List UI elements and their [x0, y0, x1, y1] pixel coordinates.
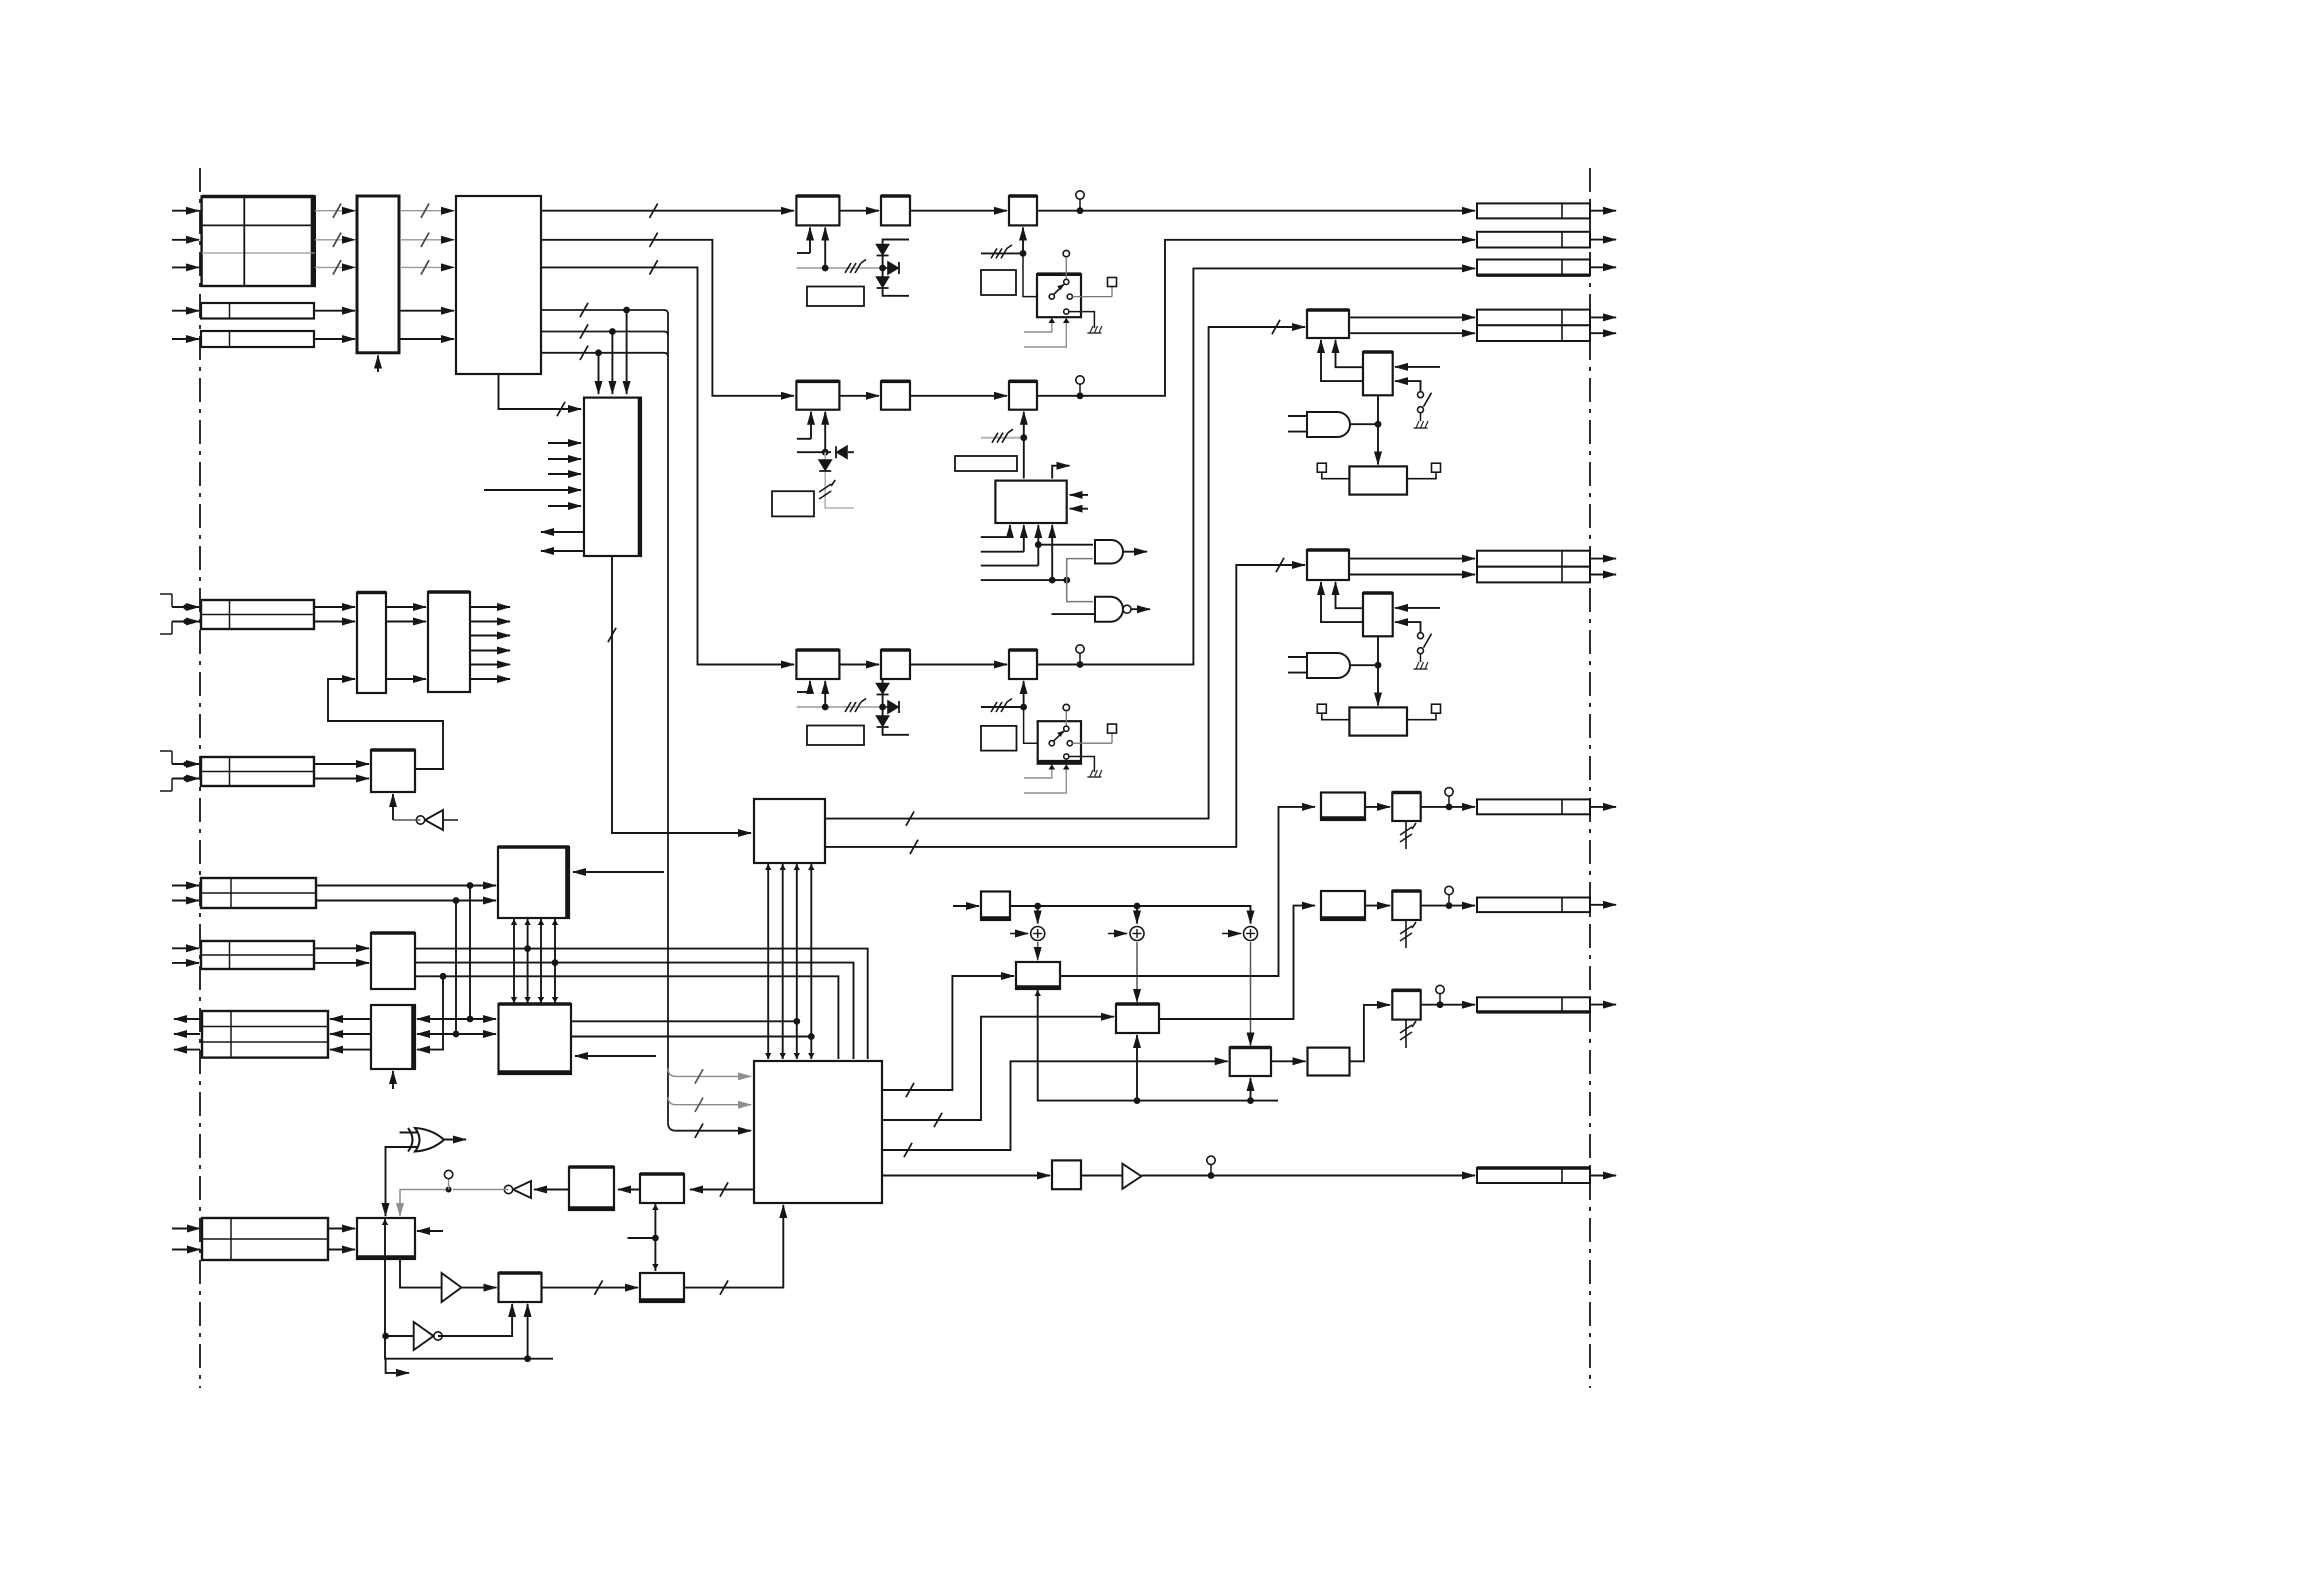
attenuator AT2	[1392, 891, 1420, 920]
node feedback	[446, 1187, 452, 1193]
wire M3 to M4	[1377, 636, 1379, 705]
wire J5.1-A3	[314, 763, 369, 765]
wire G8 to CN9	[1141, 1175, 1475, 1177]
AND gate G5	[1095, 540, 1123, 564]
wire U4-U6 data4	[810, 863, 812, 1059]
SW1 output to terminal	[1072, 296, 1112, 298]
input connector J1 (3-row table)	[202, 197, 315, 287]
line driver V2	[1307, 550, 1349, 580]
M1 input stub	[1395, 366, 1440, 368]
terminal CN8 monitor	[1436, 985, 1444, 993]
wire D2.out to F5	[1159, 906, 1315, 1019]
adjust line row3	[981, 706, 1024, 708]
wire U4.out1 to V1	[825, 327, 1305, 819]
wire D0 distribution	[1010, 906, 1251, 924]
wire D1.out to F4	[1060, 807, 1315, 976]
wire U4-U6 data1	[767, 863, 769, 1059]
wire J6.2-B1	[314, 962, 369, 964]
AND gate G14	[1307, 653, 1350, 678]
U3 input stub a	[548, 442, 581, 444]
wire tap to U3.in1	[626, 310, 628, 394]
mode box R5	[981, 726, 1017, 751]
deglitch box B3	[1052, 1160, 1081, 1189]
wire U6.out3 to D3	[882, 1061, 1228, 1150]
terminal CN6 monitor	[1445, 788, 1453, 796]
CN9 exit arrow	[1590, 1175, 1616, 1177]
wire V1 to CN4a	[1349, 316, 1475, 318]
buffer block U1	[357, 196, 399, 353]
node U2.out4 tap	[623, 307, 630, 314]
node G12 input tap	[382, 1333, 389, 1340]
wire J8 tap down to B2.in2	[455, 901, 457, 1035]
stereo decoder U5	[995, 481, 1066, 523]
node B1.out2 / DRAM	[552, 959, 559, 966]
J7 out stub1	[174, 1018, 200, 1020]
wire U4.out2 to V2	[825, 565, 1305, 847]
wire J3 to U1	[314, 338, 355, 340]
U5 status line a	[981, 525, 1010, 537]
wire G10 out (gray)	[453, 1189, 509, 1191]
wire B1 wrap to B2.in3	[417, 976, 443, 1049]
node U2.out5 tap	[609, 328, 616, 335]
DL1 bottom stub hook	[809, 228, 811, 254]
diode D4	[837, 446, 847, 458]
wire J4.2-A1	[314, 621, 355, 623]
buffer G11	[442, 1273, 462, 1302]
A2 output stub 1	[470, 606, 510, 608]
diode D6	[877, 684, 889, 694]
node clamp2	[822, 449, 829, 456]
NAND gate G6	[1095, 597, 1123, 622]
wire B2.in2 fanout	[417, 1033, 456, 1035]
attenuator AT3	[1392, 990, 1420, 1019]
A2 output stub 4	[470, 650, 510, 652]
wire dist2 to SUM2	[1136, 906, 1138, 924]
node rail to E3 return	[524, 1355, 531, 1362]
wire U6.out4 to B3	[882, 1175, 1050, 1177]
decoder A3	[371, 750, 415, 792]
input connector J9 (pair)	[202, 1218, 328, 1260]
B2 strobe feed	[392, 1071, 394, 1089]
terminal row3 monitor	[1076, 645, 1084, 653]
delay line DL2	[796, 381, 839, 409]
diode D5	[819, 460, 831, 470]
mode box R3	[772, 491, 814, 516]
level box R3b	[955, 456, 1017, 471]
CN8 exit arrow	[1590, 1004, 1616, 1006]
adjust line row1	[981, 252, 1023, 254]
sync separator E1	[357, 1218, 415, 1259]
terminal feedback	[444, 1170, 452, 1178]
output connector CN8	[1477, 997, 1590, 1012]
CN2 exit arrow	[1590, 239, 1616, 241]
filter F2	[881, 381, 910, 409]
SW1 bottom contact	[1064, 309, 1069, 314]
node rail-D4	[1247, 1097, 1254, 1104]
wire U3 to MPX U4	[612, 556, 751, 833]
wire V2 to CN5b	[1349, 574, 1475, 576]
diode D7	[877, 716, 889, 726]
ground SW1	[1087, 332, 1101, 334]
SW1 ground leg	[1069, 312, 1095, 328]
wire G1 to CN1	[1037, 210, 1475, 212]
G6 output stub	[1131, 608, 1150, 610]
U1 bottom control stub	[377, 356, 379, 373]
node clamp3	[822, 704, 829, 711]
DL2 bottom stub hook	[810, 412, 812, 439]
terminal CN7 monitor	[1445, 886, 1453, 894]
attenuator AT1	[1392, 793, 1420, 822]
interpolator D1	[1016, 962, 1060, 989]
inverter G12	[414, 1322, 434, 1350]
J4 stub row2	[172, 621, 199, 623]
node status d2	[1063, 577, 1070, 584]
wire M4 left terminal	[1322, 713, 1350, 720]
output connector CN3	[1477, 260, 1590, 276]
output connector J7 (3 rows)	[202, 1011, 328, 1058]
wire D4.out to D5	[1271, 1060, 1306, 1062]
clamp2 lower leg (bus)	[824, 452, 826, 463]
node adj2	[1020, 434, 1027, 441]
D0 input stub	[953, 905, 979, 907]
ramp generator M2	[1349, 466, 1407, 494]
memory C2	[499, 1004, 572, 1074]
divider E3	[640, 1273, 684, 1302]
wire J2 to U1	[314, 310, 355, 312]
DL3 clamp feed	[824, 681, 826, 707]
node B1.out1 / DRAM	[524, 945, 531, 952]
wire F1-G1	[910, 210, 1007, 212]
output connector CN9	[1477, 1168, 1590, 1183]
SW2 control stub b	[1024, 767, 1066, 794]
wire U1 to U2 row3 (bus)	[400, 266, 454, 268]
wire M1 to M2	[1377, 395, 1379, 464]
wire M2 left terminal	[1322, 472, 1350, 479]
ground S1	[1414, 427, 1428, 429]
input connector J6 (pair)	[201, 941, 314, 969]
SW1 control stub a	[1024, 320, 1052, 332]
wire U6.out2 to D2	[882, 1017, 1114, 1120]
G9 output stub	[444, 1139, 466, 1141]
node dist1	[1034, 903, 1041, 910]
wire J4.1-A1	[314, 606, 355, 608]
node dist2	[1134, 903, 1141, 910]
divider E4	[499, 1273, 542, 1302]
wire tap to U3.in3	[598, 353, 600, 394]
gain box G3	[1009, 650, 1037, 679]
U5 status line d	[1051, 525, 1053, 580]
wire M3 to V2 a	[1336, 582, 1364, 608]
A2 output stub 3	[470, 635, 510, 637]
diode D3	[888, 262, 898, 274]
level box R1	[807, 287, 864, 307]
wire U6 to E2 (control)	[690, 1189, 754, 1191]
node CN8 monitor	[1437, 1001, 1444, 1008]
wire C2.out2 joins U4 bus4	[571, 1036, 811, 1038]
switch S1 to M1	[1395, 381, 1421, 392]
G13 input stub a	[1288, 415, 1307, 417]
wire U2.out3 elbow to delay row3	[541, 267, 794, 664]
J3 input stub	[172, 338, 199, 340]
wire M3 to V2 b	[1321, 582, 1363, 622]
left board boundary (dash-dot)	[199, 168, 201, 1388]
wire U2.out5 joins bus	[541, 332, 668, 336]
mute control M3	[1363, 593, 1393, 636]
node clamp3 diode junction	[879, 704, 886, 711]
wire dist1 to SUM1	[1037, 906, 1039, 924]
wire G14 to ramp M4	[1350, 664, 1378, 666]
wire E2c to G10	[534, 1189, 569, 1191]
level box R4	[807, 726, 864, 746]
U3 output stub a	[541, 531, 584, 533]
wire V1 to CN4b	[1349, 332, 1475, 334]
wire G3 up to CN3	[1037, 268, 1475, 664]
wire J9.2-E1	[328, 1249, 355, 1251]
wire G2 up to CN2	[1037, 240, 1475, 396]
filter F1	[881, 196, 910, 225]
wire E4-E3	[542, 1287, 639, 1289]
input connector J8 (pair)	[201, 878, 316, 908]
node B2.in2	[453, 1031, 460, 1038]
C2 right stub	[575, 1055, 656, 1057]
terminal M4 right	[1432, 704, 1441, 713]
wire C1-C2 bus3	[540, 918, 542, 1004]
wire U2.out1 to delay row1	[541, 210, 794, 212]
node CN6 monitor	[1446, 804, 1453, 811]
bus branch to U6.in2	[668, 1097, 751, 1105]
wire J8.1-C1	[316, 885, 496, 887]
A2 output stub 2	[470, 621, 510, 623]
U3 input stub d	[484, 489, 581, 491]
wire C1-C2 bus4	[554, 918, 556, 1004]
clamp line row2	[797, 451, 831, 453]
wire U2.out6 joins bus	[541, 353, 668, 357]
wire B1.out1 to U6	[415, 949, 868, 1059]
C1 right stub	[573, 871, 664, 873]
feedback net into E1 top	[400, 1190, 449, 1217]
G5 output stub	[1123, 551, 1147, 553]
wire AT2 to CN7	[1421, 905, 1475, 907]
main decoder block U2	[456, 196, 541, 374]
diode D1	[877, 245, 889, 255]
U5 status line b	[1023, 525, 1025, 552]
buffer G8	[1122, 1164, 1141, 1189]
node status d	[1049, 577, 1056, 584]
rail output stub	[386, 1359, 409, 1373]
U3 input stub b	[548, 458, 581, 460]
wire G12 out to E4 bottom	[438, 1304, 512, 1336]
diode ladder row3	[883, 679, 909, 735]
J1 input stub row3	[172, 266, 199, 268]
output connector CN2	[1477, 232, 1590, 248]
input connector J3 (thin)	[201, 331, 314, 347]
wire G9 input from E1	[386, 1147, 418, 1216]
wire A1-A2 b	[386, 621, 426, 623]
node rail-D2	[1134, 1097, 1141, 1104]
terminal M2 left	[1317, 463, 1326, 472]
wire F5-AT2	[1365, 905, 1390, 907]
G6 input stub	[1052, 613, 1096, 615]
DL2 clamp feed	[824, 412, 826, 452]
J8 stub row1	[172, 885, 199, 887]
E1 right stub	[417, 1230, 443, 1232]
wire J1.1 to U1 (bus)	[315, 210, 355, 212]
wire B2.in1 fanout	[417, 1018, 470, 1020]
node M1-M2	[1375, 421, 1382, 428]
AT1 adjust	[1405, 821, 1407, 849]
switch S2 to M3	[1395, 622, 1421, 633]
terminal TP1	[1108, 278, 1117, 287]
G14 input stub b	[1288, 672, 1307, 674]
system control block U3	[584, 398, 641, 556]
U3 input stub e	[548, 505, 581, 507]
wire SUM1 to D1	[1037, 942, 1039, 960]
node status c	[1035, 541, 1042, 548]
shaper D5	[1308, 1048, 1350, 1076]
G3 adjust feed	[1023, 681, 1025, 707]
wire G13 to ramp M2	[1350, 423, 1378, 425]
inverter G10	[513, 1181, 531, 1198]
wire C1-C2 bus1	[513, 918, 515, 1004]
ramp generator M4	[1349, 707, 1407, 735]
node CN9 monitor	[1208, 1172, 1215, 1179]
terminal row2 monitor	[1076, 376, 1084, 384]
wire J8.2-C1	[316, 900, 496, 902]
bus branch to U6.in3	[668, 1123, 751, 1131]
terminal TP2	[1108, 724, 1117, 733]
J5 stub row1	[172, 763, 199, 765]
U3 input stub c	[548, 473, 581, 475]
AT3 adjust	[1405, 1020, 1407, 1048]
node B2.in1	[467, 1016, 474, 1023]
timing box D0	[981, 892, 1010, 921]
G2 adjust feed	[1023, 412, 1025, 438]
input connector J2 (thin)	[201, 303, 314, 319]
SW2 output to terminal	[1072, 742, 1112, 744]
M3 input stub	[1395, 607, 1440, 609]
SW2 control stub a	[1024, 767, 1052, 779]
clamp line row1 (bus)	[797, 267, 886, 269]
selector switch SW1	[1037, 274, 1081, 317]
CN5 exit arrows	[1590, 558, 1616, 560]
J1 input stub row1	[172, 210, 199, 212]
J4 stub row1	[172, 606, 199, 608]
wire U6.out1 to D1	[882, 976, 1014, 1090]
wire F4-AT1	[1365, 806, 1390, 808]
node CN7 monitor	[1446, 902, 1453, 909]
interpolator D4	[1230, 1048, 1271, 1077]
gray elbow to gates	[1067, 559, 1093, 602]
gain box G2	[1009, 381, 1037, 409]
node row1 monitor	[1077, 207, 1084, 214]
wire U2 bottom to U3 (bus)	[499, 374, 582, 409]
SUM2 input stub	[1108, 933, 1127, 935]
adjust line row2 (bus)	[981, 437, 1024, 439]
wire AT3 to CN8	[1421, 1004, 1475, 1006]
U5 pilot stub	[1052, 466, 1069, 479]
G9 input stub	[400, 1132, 417, 1134]
diode D8	[888, 701, 898, 713]
wire U2.out4 joins bus	[541, 310, 668, 1123]
J7 out stub3	[174, 1049, 200, 1051]
wire J1.2 to U1 (bus)	[315, 239, 355, 241]
wire A3 wrap to A1	[328, 679, 443, 769]
DL3 bottom stub hook	[809, 681, 811, 692]
node clamp1	[822, 265, 829, 272]
input connector J4 (pair)	[201, 600, 314, 629]
U5 right stub b	[1070, 508, 1088, 510]
wire rail to D4	[1250, 1078, 1252, 1101]
pll box E2	[640, 1174, 684, 1203]
SUM1 input stub	[1010, 933, 1028, 935]
wire J9.1-E1	[328, 1228, 355, 1230]
wire AT1 to CN6	[1421, 806, 1475, 808]
wire DL3-F3	[839, 664, 879, 666]
wire C2.out1 joins U4 bus3	[571, 1020, 797, 1022]
S2b ground leg	[1420, 654, 1422, 662]
gain box G1	[1009, 196, 1037, 225]
wire E1 bottom to G11	[400, 1259, 442, 1288]
wire G11-E4	[461, 1287, 496, 1289]
output connector CN5 (pair)	[1477, 551, 1590, 567]
wire status c to G5	[1038, 544, 1093, 546]
A3 clock feed	[392, 794, 394, 820]
wire J5.2-A3	[314, 778, 369, 780]
wire D5.out to AT3	[1350, 1005, 1391, 1061]
switch S2	[1418, 633, 1424, 639]
wire J6.1-B1	[314, 947, 369, 949]
G14 input stub a	[1288, 656, 1307, 658]
wire V2 to CN5a	[1349, 558, 1475, 560]
wire rail to D2	[1136, 1035, 1138, 1101]
wire B3-G8	[1081, 1175, 1122, 1177]
DSP core U6	[754, 1061, 882, 1203]
input connector J5 (pair)	[201, 757, 314, 786]
wire E1 feedback rail	[385, 1218, 553, 1359]
adder SUM2	[1130, 927, 1144, 941]
terminal M2 right	[1432, 463, 1441, 472]
node adj3	[1020, 704, 1027, 711]
wire SUM2 to D2	[1136, 942, 1138, 1002]
wire B2-J7 row2	[330, 1033, 371, 1035]
interpolator D2	[1116, 1004, 1159, 1033]
G1 adjust feed	[1022, 228, 1024, 254]
D1 bottom reference	[1059, 975, 1061, 977]
adder SUM3	[1244, 927, 1258, 941]
wire C1-C2 bus2	[527, 918, 529, 1004]
terminal CN9 monitor	[1207, 1156, 1215, 1164]
terminal row1 monitor	[1076, 191, 1084, 199]
output connector CN1	[1477, 203, 1590, 218]
node J8.2 tap	[453, 897, 460, 904]
node adj1	[1020, 250, 1027, 257]
AND gate G13	[1307, 412, 1350, 437]
A2 output stub 5	[470, 664, 510, 666]
inverter G7	[425, 810, 443, 830]
wire M4 right terminal	[1407, 713, 1436, 720]
SW1 control stub b	[1024, 320, 1066, 347]
diode D2	[877, 277, 889, 287]
clamp line row3 (bus)	[797, 706, 886, 708]
wire B2-J7 row1	[330, 1018, 371, 1020]
wire U1 to U2 row5	[399, 338, 454, 340]
adder SUM1	[1031, 927, 1045, 941]
U5 right stub a	[1070, 494, 1088, 496]
driver B2	[371, 1005, 415, 1069]
CN4 exit arrows	[1590, 316, 1616, 318]
XOR gate G9	[415, 1128, 444, 1152]
wire E4 to U6 (return)	[684, 1205, 783, 1288]
